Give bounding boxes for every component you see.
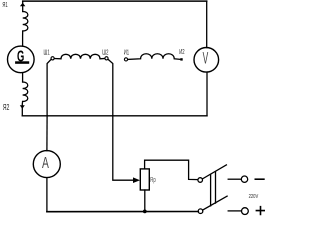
- node Я2 arrow (armature bottom terminal): [20, 105, 25, 109]
- armature lower coil: [23, 82, 28, 102]
- svg-text:A: A: [42, 154, 49, 172]
- wire rheostat top lead to switch: [145, 160, 198, 179]
- switch S1 bottom blade: [203, 196, 228, 210]
- wire supply bottom: [228, 210, 241, 212]
- wire generator bottom lead: [22, 73, 24, 82]
- shunt winding coil: [54, 54, 105, 59]
- svg-text:И1: И1: [124, 48, 130, 57]
- switch S1 tie bar left: [210, 174, 212, 206]
- svg-text:Rp: Rp: [150, 177, 156, 184]
- wire rheostat bottom lead: [144, 190, 146, 211]
- generator G1 circle: [7, 46, 34, 73]
- svg-text:И2: И2: [179, 48, 185, 57]
- terminal supply plus: [242, 208, 249, 215]
- rheostat wiper arrow: [133, 177, 140, 183]
- independent winding terminal И1: [124, 58, 127, 61]
- wire coil to bottom bend: [21, 102, 23, 116]
- wire shunt left lead to ammeter: [46, 116, 48, 151]
- wire top bus from armature to voltmeter: [23, 0, 207, 2]
- svg-text:Ш1: Ш1: [44, 48, 51, 57]
- svg-text:Я2: Я2: [3, 104, 10, 112]
- switch S1 tie bar right: [215, 172, 217, 204]
- svg-text:220V: 220V: [249, 194, 259, 201]
- wire voltmeter bottom lead: [206, 72, 208, 116]
- switch S1 top blade: [202, 165, 226, 179]
- svg-text:V: V: [203, 48, 209, 67]
- terminal supply minus: [241, 176, 247, 182]
- wire shunt left lead down: [47, 59, 51, 116]
- wire ammeter bottom lead: [46, 178, 48, 212]
- independent winding terminal И2: [180, 58, 182, 60]
- voltmeter V1 circle: [194, 48, 219, 73]
- switch S1 top contact: [198, 178, 203, 183]
- switch S1 bottom contact: [198, 209, 203, 214]
- plus sign: [256, 207, 264, 215]
- svg-text:Ш2: Ш2: [102, 48, 109, 57]
- wire shunt right lead to rheostat wiper: [113, 116, 134, 180]
- wire bottom return bus: [47, 211, 198, 213]
- wire coil to generator: [22, 31, 24, 46]
- wire shunt right lead down: [108, 59, 113, 116]
- shunt winding terminal circle Ш1: [51, 57, 54, 60]
- ammeter A1 circle: [33, 151, 60, 178]
- wire voltmeter top lead: [206, 1, 208, 48]
- armature upper coil: [23, 12, 28, 32]
- wire armature top lead: [22, 1, 24, 11]
- minus sign: [255, 178, 264, 180]
- rheostat Rp body: [140, 169, 149, 190]
- independent winding coil: [128, 54, 180, 60]
- wire bottom bus (armature to voltmeter bottom): [22, 115, 207, 117]
- node Я1 arrow (armature top terminal): [20, 3, 26, 7]
- shunt winding terminal circle Ш2: [105, 57, 108, 60]
- node junction rheostat / bottom bus: [143, 210, 147, 214]
- svg-text:Я1: Я1: [2, 1, 8, 10]
- wire supply top: [228, 178, 241, 180]
- generator underline bar: [15, 61, 29, 64]
